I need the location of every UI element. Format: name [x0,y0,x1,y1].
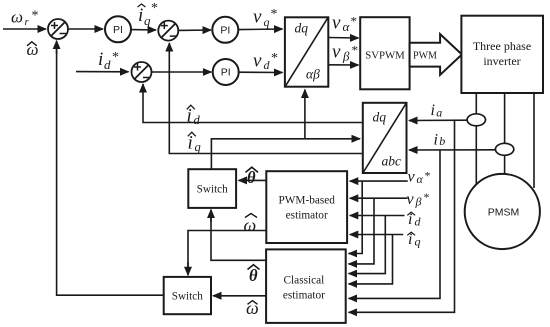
svg-text:v: v [408,169,416,186]
wire id-hat feedback to S3 [143,85,363,123]
wire phase c [533,93,535,188]
svg-text:PWM: PWM [413,51,437,62]
svg-text:estimator: estimator [283,290,325,302]
node S2 minus sign [170,35,177,37]
svg-text:b: b [439,134,445,148]
svg-text:v: v [253,50,262,71]
svg-text:*: * [271,51,278,66]
svg-text:PI: PI [221,67,231,79]
wire id-hat drop to classical estimator [349,216,386,274]
svg-text:αβ: αβ [306,67,320,82]
diagonal of U1 [285,18,328,87]
wire SW2 output to S1 [57,48,164,295]
label omega-r* [11,8,39,29]
svg-text:β: β [415,195,422,209]
op PI controller PI2 [212,17,238,43]
wire theta-hat branch up to U1 [304,90,306,139]
label id-hat feedback [187,105,201,127]
label id* [98,49,119,72]
svg-text:Switch: Switch [172,290,203,302]
svg-text:Three phase: Three phase [473,39,531,53]
wire theta-hat bus from switch SW1 to dq-abc [211,139,305,169]
label iq-hat tap [407,231,420,249]
svg-text:β: β [342,49,350,64]
label id-hat tap [407,211,421,229]
label v-alpha* [332,12,357,34]
svg-text:ω: ω [11,8,23,27]
svg-text:PWM-based: PWM-based [278,195,335,207]
svg-text:α: α [343,19,351,34]
label theta-hat classical [248,265,260,285]
svg-text:SVPWM: SVPWM [365,50,405,62]
svg-text:i: i [138,5,143,26]
wire theta-hat from classical estimator to SW1 bottom [211,216,266,260]
wire phase a [475,93,477,186]
wire S1 to PI1 [68,28,103,30]
svg-text:d: d [264,58,271,72]
svg-text:*: * [151,1,158,16]
svg-text:v: v [332,42,341,63]
label vd* [253,50,278,72]
node S1 minus sign [60,33,67,35]
label omega-hat classical [246,298,259,318]
svg-text:inverter: inverter [483,54,520,68]
svg-text:*: * [351,14,358,29]
block three phase inverter [461,16,543,93]
svg-text:q: q [415,235,421,249]
svg-text:abc: abc [382,154,402,169]
wire v-beta* to SVPWM [328,64,358,66]
wire vq* to dq-ab block [238,28,282,31]
wire theta-hat from PWM estimator to SW1 [239,179,267,181]
PWM block arrow [410,34,462,75]
svg-text:a: a [436,106,442,120]
svg-text:*: * [425,169,431,183]
svg-text:*: * [424,190,430,204]
wire ib drop to classical estimator [349,150,440,299]
svg-text:*: * [112,50,119,65]
node S2 plus sign [161,22,168,29]
svg-text:r: r [25,16,30,28]
wire S2 to PI2 [178,29,211,31]
op PI controller PI3 [213,59,239,85]
label theta-hat PWM [246,167,259,187]
current sensor CT2 [495,143,513,155]
wire ia drop to classical estimator [349,120,455,312]
wire v-alpha* to SVPWM [328,37,358,40]
block U2 dq to abc transform [363,103,407,173]
svg-text:dq: dq [373,110,387,125]
block U1 dq to alpha-beta transform [285,17,328,86]
current sensor CT1 [467,114,485,126]
label three phase inverter [473,39,531,68]
block PWM-based estimator [266,171,347,243]
svg-text:d: d [104,57,111,72]
svg-text:α: α [417,172,424,186]
label ib [434,132,446,149]
svg-text:PMSM: PMSM [488,207,520,219]
svg-text:v: v [407,191,415,208]
motor PMSM [465,174,540,249]
wire iq-hat tap to PWM estimator [350,234,403,236]
svg-text:estimator: estimator [286,210,328,222]
wire id-hat tap to PWM estimator [350,215,405,217]
label ia [431,102,443,120]
svg-text:v: v [253,6,262,27]
label PWM-based estimator [278,195,335,222]
label classical estimator [283,275,325,302]
node S1 plus sign [51,22,58,29]
svg-text:θ: θ [249,266,258,285]
wire speed reference input [3,28,46,30]
svg-text:q: q [144,13,151,28]
label iq-hat feedback [188,132,201,154]
label omega-hat PWM [244,214,258,236]
svg-text:*: * [271,7,278,22]
wire phase b [504,93,506,174]
svg-text:i: i [434,132,438,149]
wire id* reference input [76,71,129,73]
svg-text:v: v [332,12,341,33]
svg-text:d: d [194,113,201,127]
label v-beta* [332,42,358,64]
node S3 plus sign [134,64,141,71]
svg-text:Classical: Classical [284,275,325,287]
wire iq-hat drop to classical estimator [349,235,393,284]
svg-text:i: i [431,102,435,119]
block classical estimator [266,249,346,323]
label iq-hat* [138,1,159,28]
diagonal of U2 [363,103,406,172]
svg-text:PI: PI [220,25,230,37]
wire v-beta* tap to PWM estimator [350,197,408,199]
summing junction S3 [132,62,152,82]
wire vd* to dq-ab block [239,71,283,73]
svg-text:q: q [195,140,201,154]
block switch SW2 [164,277,211,314]
svg-text:*: * [32,9,39,24]
wire omega-hat from PWM estimator to SW2 top [188,231,266,269]
label vq* [253,6,278,29]
svg-text:Switch: Switch [197,183,228,195]
wire PI1 to S2 [131,29,156,31]
svg-text:dq: dq [295,21,309,36]
wire S3 to PI3 [152,71,212,73]
svg-text:*: * [352,43,359,58]
svg-text:i: i [98,49,103,70]
block switch SW1 [188,169,236,208]
label v-beta* tap [407,190,430,209]
wire v-beta* drop to classical estimator [349,198,374,264]
svg-text:q: q [264,15,270,29]
label omega-hat feedback [27,40,39,59]
svg-text:d: d [415,215,422,229]
wire v-alpha* tap to PWM estimator [350,180,408,182]
wire ib from CT2 to dq-abc block [409,149,495,151]
block SVPWM [360,17,409,89]
wire ia from CT1 to dq-abc block [409,119,467,121]
summing junction S2 [158,21,178,41]
label v-alpha* tap [408,169,431,187]
summing junction S1 [48,19,68,39]
op PI controller PI1 [105,16,131,42]
node S3 minus sign [143,77,150,79]
wire omega-hat from classical estimator to SW2 [213,295,266,297]
svg-text:PI: PI [113,24,123,36]
wire v-alpha* drop to classical estimator [349,181,363,253]
wire iq-hat feedback to S2 [169,44,362,154]
